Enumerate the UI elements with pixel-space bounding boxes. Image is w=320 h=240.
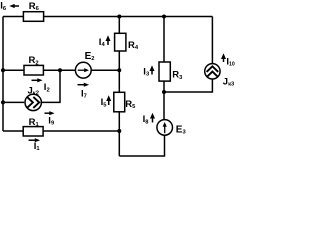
wire R2 row left bbox=[3, 69, 24, 71]
node left-R2 junction bbox=[1, 68, 5, 72]
node D junction bbox=[162, 90, 166, 94]
resistor R3 bbox=[159, 62, 183, 81]
current I5 label and arrow bbox=[101, 95, 112, 108]
wire right rail upper bbox=[211, 17, 213, 65]
current I1 label and arrow bbox=[29, 138, 41, 152]
wire R1 row left bbox=[3, 130, 23, 132]
resistor R2 bbox=[24, 55, 43, 75]
wire Jk2 branch vertical bbox=[41, 70, 60, 102]
wire bottom bbox=[119, 135, 164, 156]
current I6 label and arrow bbox=[0, 1, 19, 12]
wire R3 column top bbox=[163, 17, 165, 63]
current I4 label and arrow bbox=[99, 35, 111, 48]
wire Jk2 to left rail bbox=[3, 101, 24, 103]
node top-mid junction bbox=[117, 15, 121, 19]
node B junction bbox=[117, 68, 121, 72]
current source Jk2 bbox=[25, 85, 41, 110]
wire mid column R4 to R5 bbox=[118, 51, 120, 92]
wire R3 to E3 bbox=[163, 81, 165, 120]
wire top right segment bbox=[44, 16, 213, 18]
resistor R6 bbox=[23, 1, 43, 21]
wire top left segment bbox=[3, 16, 23, 18]
wire R1 to node C bbox=[43, 130, 119, 132]
wire right rail lower bbox=[164, 79, 212, 93]
wire mid column top bbox=[118, 17, 120, 34]
wire left rail bbox=[2, 17, 4, 132]
resistor R4 bbox=[115, 33, 139, 51]
node R2-branch junction bbox=[58, 68, 62, 72]
current I8 label and arrow bbox=[143, 113, 155, 126]
wire R2 to E2 bbox=[43, 69, 75, 71]
resistor R1 bbox=[23, 117, 43, 136]
node top-R3 junction bbox=[162, 15, 166, 19]
current source Jk3 bbox=[205, 64, 235, 88]
wire E2 to node B bbox=[91, 69, 119, 71]
current I10 label and arrow bbox=[221, 53, 235, 67]
voltage source E3 bbox=[157, 120, 187, 136]
node C junction bbox=[117, 129, 121, 133]
current I9 label and arrow bbox=[45, 111, 55, 127]
wire mid column R5 to bottom bbox=[118, 112, 120, 156]
current I3 label and arrow bbox=[143, 65, 154, 77]
resistor R5 bbox=[114, 92, 136, 112]
node left-Jk2 junction bbox=[1, 100, 5, 104]
voltage source E2 bbox=[75, 51, 94, 78]
current I2 label and arrow bbox=[32, 78, 50, 93]
current I7 label and arrow bbox=[78, 83, 90, 100]
